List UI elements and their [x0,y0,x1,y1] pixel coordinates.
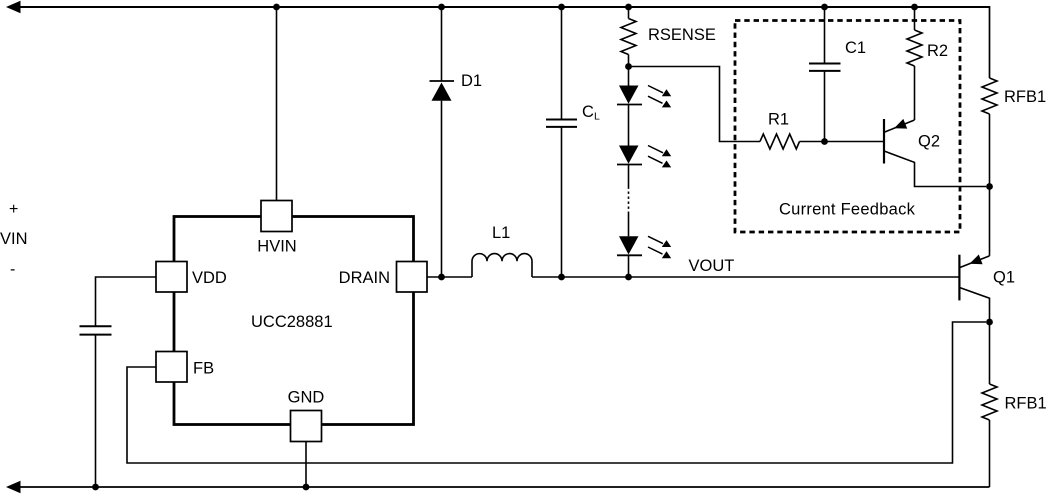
transistor Q1 PNP [959,255,1015,323]
svg-text:RFB1: RFB1 [1004,88,1046,106]
LED D4 [617,213,671,278]
wire dotted LED string continuation [628,187,630,213]
wire DRAIN to L1 [427,276,472,278]
svg-text:GND: GND [288,389,325,407]
capacitor CL [546,7,600,277]
svg-text:DRAIN: DRAIN [339,269,390,287]
svg-text:L: L [594,111,600,123]
svg-text:+: + [9,201,18,218]
junction D1 / DRAIN wire [438,274,445,281]
pin FB [156,352,187,383]
arrow top rail left end [6,1,21,13]
svg-text:D1: D1 [461,72,482,90]
svg-text:RSENSE: RSENSE [648,26,716,44]
wire R1 to Q2 base [800,141,885,143]
svg-text:FB: FB [193,360,214,378]
svg-text:R2: R2 [927,42,948,60]
junction Q2 collector / RFB1 upper [986,183,993,190]
arrow bottom rail left end [6,481,21,493]
junction CL top rail [558,4,565,11]
junction GND / bottom rail [303,484,310,491]
junction Q1 collector / RFB1 lower / FB [986,319,993,326]
svg-text:Q1: Q1 [993,269,1015,287]
svg-text:L1: L1 [492,224,510,242]
svg-text:VIN: VIN [0,230,28,248]
dashed box current feedback [735,21,960,233]
junction C1 / R1 / Q2 base [821,138,828,145]
wire HVIN vertical [276,7,278,201]
diode D1 [430,7,483,277]
wire GND to bottom rail [305,442,307,488]
svg-text:VOUT: VOUT [689,257,735,275]
resistor RSENSE [621,7,716,67]
LED D3 [617,146,671,187]
svg-text:C1: C1 [845,39,866,57]
svg-text:C: C [582,103,594,121]
wire bottom rail [19,486,990,488]
transistor Q2 PNP [884,119,986,187]
pin VDD [156,262,187,293]
capacitor CIN plates [80,326,112,334]
pin HVIN [261,201,292,232]
resistor R1 [760,111,800,150]
junction RSENSE / LED / R1 wire [625,63,632,70]
junction input cap / bottom rail [92,484,99,491]
junction RSENSE top rail [625,4,632,11]
svg-text:-: - [10,261,15,278]
junction R2 top rail [911,4,918,11]
junction CL / VOUT wire [558,274,565,281]
LED D2 [617,67,671,146]
capacitor C1 [809,7,866,142]
junction C1 top rail [821,4,828,11]
svg-text:R1: R1 [768,111,789,129]
wire top rail [19,6,990,8]
op-amp U1 UCC28881 body [174,217,414,425]
pin DRAIN [397,262,428,293]
wire RSENSE node to R1 [629,67,761,142]
svg-text:HVIN: HVIN [257,238,296,256]
junction LED string / VOUT wire [625,274,632,281]
wire FB feedback run [127,322,986,463]
junction HVIN top rail [273,4,280,11]
svg-text:RFB1: RFB1 [1005,395,1047,413]
pin GND [291,411,322,442]
resistor R2 [907,7,948,120]
wire input capacitor to bottom rail [95,335,97,487]
inductor L1 [472,224,532,277]
junction D1 top rail [438,4,445,11]
svg-text:Q2: Q2 [918,133,940,151]
svg-text:VDD: VDD [192,269,227,287]
resistor RFB1 lower [982,322,1047,487]
svg-text:UCC28881: UCC28881 [251,313,333,331]
wire right rail down to RFB1 upper [989,6,991,78]
wire VOUT net L1 to Q1 base [532,276,959,278]
wire VDD to input capacitor [96,277,157,326]
svg-text:Current Feedback: Current Feedback [779,201,916,219]
resistor RFB1 upper [982,78,1046,256]
